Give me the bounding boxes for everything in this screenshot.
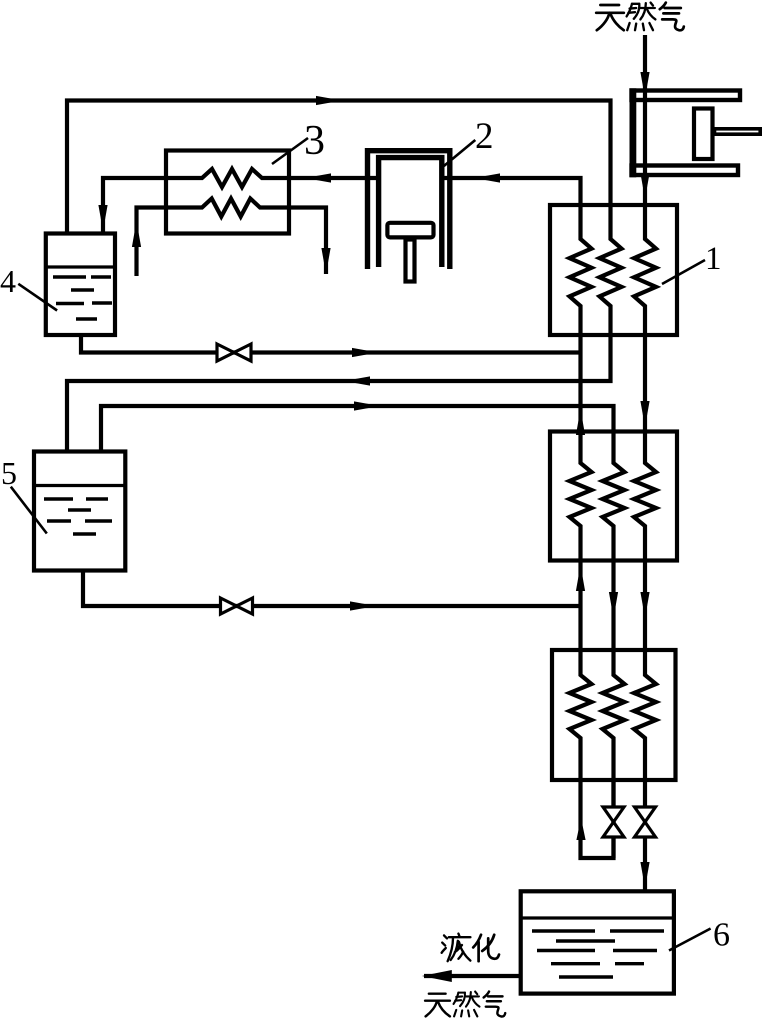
- compressor cylinder left wall: [630, 88, 637, 177]
- arrow: flow right on upper horizontal line: [316, 96, 342, 105]
- arrow: down into middle exchanger right coil: [640, 401, 649, 427]
- throttle valve on bottom right line: [635, 807, 656, 822]
- pipe: liquefied natural gas product line out of tank 6: [424, 974, 521, 978]
- tank 4 liquid dashes: [53, 275, 86, 278]
- compressor cylinder bottom arm: [632, 166, 739, 176]
- arrow: up from bottom U-turn: [576, 818, 585, 840]
- heat exchanger (bottom box): [552, 650, 676, 780]
- expander 2 piston rod: [406, 240, 415, 282]
- heat exchanger 1 (box): [550, 205, 677, 335]
- pipe: cold return line (bottom U-turn up through left coils, expander 2, exchanger 3 upper coil, into tank 4): [103, 169, 614, 858]
- pipe: exchanger 3 lower coil line (open ended, inlet up-arrow left, outlet down-arrow right): [137, 199, 327, 277]
- arrow: left toward tank 5 on return line: [344, 376, 370, 385]
- tank 5 liquid dashes: [44, 497, 73, 500]
- throttle valve on bottom middle line: [603, 807, 624, 822]
- tank 4 (separator vessel): [46, 234, 115, 336]
- tank 6 liquid level line: [521, 916, 674, 919]
- svg-text:4: 4: [0, 263, 16, 299]
- tank 6 (LNG storage tank): [521, 891, 674, 993]
- tank 5 liquid level line: [34, 484, 125, 487]
- svg-text:5: 5: [1, 455, 17, 491]
- arrow: up into exchanger 1 left coil: [576, 409, 585, 435]
- label 6 leader line: [669, 929, 711, 951]
- heat exchanger 3 (box with two coils): [166, 151, 289, 234]
- pipe: natural gas feed line (through compressor and right coils of exchangers into tank 6): [634, 35, 656, 891]
- arrow: up into middle exchanger left coil: [576, 565, 585, 591]
- pipe: refrigerant line (tank 4 top, upper horizontal, middle coil of exchanger 1, into tank 5): [67, 101, 622, 452]
- expander 2 inner cylinder: [379, 158, 442, 267]
- expander 2 piston: [387, 223, 433, 238]
- label 3 leader line: [272, 138, 308, 164]
- expander 2 cylinder chamber (white interior): [380, 158, 440, 267]
- throttle valve on tank 5 outlet line: [221, 598, 237, 614]
- text: 天然气 (natural gas, top feed label): [596, 5, 624, 30]
- tank 6 liquid dashes: [532, 929, 595, 932]
- compressor piston rod: [715, 129, 761, 134]
- arrow: right after tank 4 throttle valve: [352, 348, 378, 357]
- expander 2 outer shell: [368, 151, 450, 269]
- text: 液化 (liquefied): [442, 934, 471, 962]
- pipe: tank 4 bottom outlet through throttle valve to left riser: [81, 335, 581, 353]
- label 1 leader line: [662, 260, 705, 284]
- label 4 leader line: [18, 284, 57, 311]
- svg-text:3: 3: [304, 118, 325, 164]
- compressor piston: [694, 109, 713, 160]
- arrow: into tank 4 right inlet: [98, 205, 107, 231]
- arrow: down into tank 6: [640, 862, 649, 888]
- arrow: compressed gas to exchanger 1: [640, 173, 649, 199]
- label 2 leader line: [444, 140, 475, 166]
- arrow: LNG product out: [422, 970, 452, 982]
- arrow: up into exchanger 3 lower coil: [132, 221, 141, 247]
- arrow: natural gas into compressor: [640, 72, 649, 98]
- compressor cylinder top arm: [632, 91, 741, 101]
- arrow: right after tank 5 throttle valve: [350, 601, 376, 610]
- heat exchanger (middle box, below 1): [550, 432, 677, 561]
- arrow: down out of exchanger 3 lower coil: [321, 248, 330, 274]
- svg-text:1: 1: [705, 241, 722, 277]
- arrow: down into bottom exchanger right coil: [640, 592, 649, 618]
- arrow: left toward expander 2 inlet side: [305, 173, 331, 182]
- pipe: tank 5 vapor line (through middle coils of lower exchangers to bottom valve): [101, 406, 625, 858]
- throttle valve on tank 4 outlet line: [217, 344, 234, 361]
- label 5 leader line: [11, 487, 47, 534]
- arrow: down into bottom exchanger middle coil: [609, 592, 618, 618]
- tank 4 liquid level line: [46, 265, 115, 268]
- arrow: right on tank 5 vapor line: [354, 401, 380, 410]
- arrow: left into expander 2: [474, 173, 500, 182]
- svg-text:6: 6: [713, 917, 730, 954]
- tank 5 (separator vessel): [34, 452, 125, 571]
- svg-text:2: 2: [475, 116, 494, 157]
- pipe: tank 5 bottom outlet through throttle valve to left riser: [83, 571, 581, 607]
- text: 天然气 (natural gas, bottom product label): [425, 994, 450, 1017]
